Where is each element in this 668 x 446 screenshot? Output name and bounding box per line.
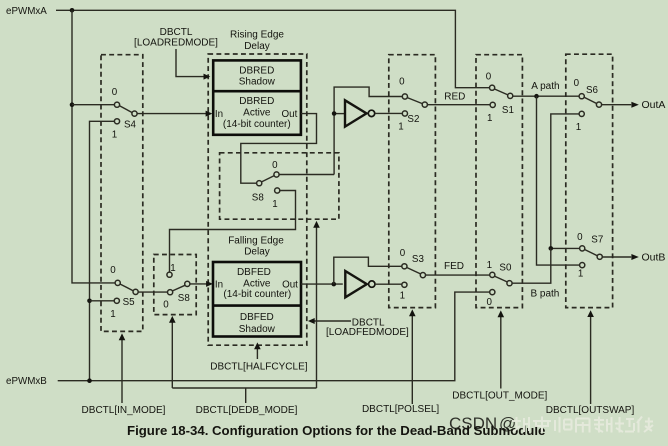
svg-text:RED: RED bbox=[444, 91, 465, 102]
svg-text:1: 1 bbox=[400, 290, 405, 301]
svg-text:DBCTL: DBCTL bbox=[160, 27, 193, 38]
svg-text:Active: Active bbox=[243, 108, 271, 119]
svg-text:S3: S3 bbox=[412, 254, 425, 265]
wire S4-1 / S5-1 vertical x89.5 bbox=[90, 121, 115, 380]
svg-text:S8: S8 bbox=[178, 293, 191, 304]
arrow LOADREDMODE to shadow box bbox=[176, 49, 204, 77]
dashed box POLSEL (S2/S3) bbox=[389, 55, 436, 308]
wire ePWMxA main: right, down, to S1 contact 0 bbox=[56, 10, 489, 87]
svg-text:0: 0 bbox=[400, 248, 406, 259]
wire FED junction over the top to S3 contact 0 bbox=[334, 257, 402, 284]
svg-text:0: 0 bbox=[574, 78, 580, 89]
svg-text:DBCTL[IN_MODE]: DBCTL[IN_MODE] bbox=[82, 405, 166, 416]
svg-text:Delay: Delay bbox=[244, 41, 270, 52]
svg-text:1: 1 bbox=[487, 260, 492, 271]
arrow HALFCYCLE to falling box bbox=[256, 349, 258, 359]
svg-text:CSDN: CSDN bbox=[449, 414, 497, 433]
watermark CSDN bbox=[449, 414, 516, 433]
wire DBRED Out feed to S8 upper common bbox=[241, 114, 317, 184]
junction on RED inverter input bbox=[332, 111, 337, 116]
svg-text:OutB: OutB bbox=[642, 252, 666, 264]
svg-text:B path: B path bbox=[530, 289, 559, 300]
wire junction down to S0 common bbox=[512, 248, 551, 283]
dashed box rising/falling delay bbox=[208, 54, 307, 345]
junction x89.5 S5-1 branch bbox=[87, 299, 92, 304]
svg-text:S2: S2 bbox=[407, 114, 419, 125]
wire S8 lower common to DBFED In bbox=[190, 283, 206, 285]
svg-text:S8: S8 bbox=[252, 193, 265, 204]
switch S6 bbox=[574, 78, 602, 133]
svg-text:1: 1 bbox=[398, 121, 403, 132]
svg-text:S5: S5 bbox=[123, 297, 136, 308]
switch S1 bbox=[486, 71, 514, 124]
block DBFED (active + shadow) bbox=[213, 262, 301, 337]
wire U1 out to S2 contact 1 bbox=[375, 112, 402, 114]
svg-text:ePWMxA: ePWMxA bbox=[6, 6, 47, 17]
junction x72 to S4-0 bbox=[70, 102, 75, 107]
wire S7 common to OutB bbox=[603, 256, 632, 258]
svg-text:DBCTL[DEDB_MODE]: DBCTL[DEDB_MODE] bbox=[196, 405, 298, 416]
dashed box IN_MODE (S4/S5) bbox=[101, 55, 143, 332]
wire A path crossover down to S7 contact 1 bbox=[537, 96, 580, 265]
svg-text:Active: Active bbox=[243, 278, 271, 289]
wire to S5 contact 1 bbox=[90, 300, 115, 302]
svg-text:1: 1 bbox=[170, 263, 175, 274]
svg-text:Falling Edge: Falling Edge bbox=[228, 236, 284, 247]
dashed box S8 upper bbox=[220, 153, 339, 219]
switch S0 bbox=[486, 260, 512, 308]
arrow OUT_MODE to S1/S0 box bbox=[500, 317, 502, 389]
wire to S4 contact 0 bbox=[72, 104, 114, 106]
svg-text:1: 1 bbox=[487, 113, 492, 124]
svg-text:ePWMxB: ePWMxB bbox=[6, 376, 47, 387]
svg-text:DBCTL[OUTSWAP]: DBCTL[OUTSWAP] bbox=[546, 405, 635, 416]
switch S8 upper bbox=[252, 160, 280, 210]
wire S6 common to OutA bbox=[602, 104, 631, 106]
switch S5 bbox=[110, 265, 138, 320]
svg-text:S0: S0 bbox=[499, 262, 512, 273]
junction on FED inverter input bbox=[332, 282, 337, 287]
svg-text:(14-bit counter): (14-bit counter) bbox=[223, 289, 291, 300]
svg-text:DBRED: DBRED bbox=[239, 66, 274, 77]
dashed box S8 lower bbox=[154, 255, 196, 315]
wire junction to inverter U1 input bbox=[334, 113, 345, 115]
dashed box OUTSWAP (S6/S7) bbox=[566, 54, 613, 307]
switch S2 bbox=[398, 77, 427, 133]
svg-text:0: 0 bbox=[272, 160, 278, 171]
svg-text:FED: FED bbox=[444, 261, 464, 272]
dashed box OUT_MODE (S1/S0) bbox=[476, 55, 522, 308]
wire DBFED Out to inverter U2 and junction bbox=[301, 283, 343, 285]
svg-text:DBCTL[HALFCYCLE]: DBCTL[HALFCYCLE] bbox=[210, 362, 307, 373]
svg-text:Out: Out bbox=[282, 109, 298, 120]
svg-text:DBCTL[OUT_MODE]: DBCTL[OUT_MODE] bbox=[452, 390, 547, 401]
wire ePWMxB main: right, up, to S0 contact 0 bbox=[58, 292, 490, 381]
svg-text:S6: S6 bbox=[586, 85, 599, 96]
svg-text:1: 1 bbox=[578, 269, 583, 280]
svg-text:DBCTL[POLSEL]: DBCTL[POLSEL] bbox=[362, 404, 439, 415]
block DBRED (shadow + active) bbox=[213, 60, 301, 134]
arrowhead into DBFED In bbox=[206, 281, 213, 287]
wire A path: S1 common to S6 contact 0 bbox=[513, 95, 579, 97]
wire S8 upper contact 1 down to S8 lower contact 1 bbox=[170, 191, 296, 272]
wire DEDB_MODE stub and rail bbox=[172, 388, 316, 403]
junction x89.5 ePWMxB bbox=[87, 378, 92, 383]
arrow POLSEL to S2/S3 box bbox=[411, 316, 413, 404]
wire S6 contact 1 crossover down to S7 contact 0 bbox=[551, 114, 580, 249]
switch S8 lower bbox=[163, 263, 190, 310]
wire S8 upper contact 0 to inverter junction bbox=[279, 87, 402, 174]
switch S4 bbox=[112, 87, 137, 140]
wire U2 out to S3 contact 1 bbox=[375, 283, 402, 285]
wire vertical x72 down to S5 row bbox=[72, 10, 115, 283]
svg-text:Delay: Delay bbox=[244, 247, 270, 258]
switch S3 bbox=[400, 248, 426, 301]
svg-text:S1: S1 bbox=[502, 105, 514, 116]
wire S5 common to S8 lower contact 0 bbox=[138, 291, 167, 293]
svg-text:(14-bit counter): (14-bit counter) bbox=[223, 119, 291, 130]
junction ePWMxA at x72 bbox=[70, 8, 75, 13]
svg-text:1: 1 bbox=[576, 122, 581, 133]
svg-text:Out: Out bbox=[282, 279, 298, 290]
svg-text:OutA: OutA bbox=[642, 99, 666, 111]
svg-text:0: 0 bbox=[163, 299, 169, 310]
svg-text:0: 0 bbox=[110, 265, 116, 276]
svg-text:In: In bbox=[215, 279, 223, 290]
arrowhead OutB bbox=[631, 254, 638, 260]
svg-text:1: 1 bbox=[112, 130, 117, 141]
svg-text:DBRED: DBRED bbox=[239, 96, 274, 107]
svg-text:[LOADREDMODE]: [LOADREDMODE] bbox=[134, 37, 218, 48]
svg-text:1: 1 bbox=[110, 309, 115, 320]
wire FED net: S3 common to S0 contact 1 bbox=[426, 274, 490, 276]
watermark chinese glyph blocks bbox=[512, 417, 653, 433]
svg-text:In: In bbox=[215, 109, 223, 120]
arrow IN_MODE to S4/S5 box bbox=[121, 340, 123, 403]
junction A path bbox=[534, 94, 539, 99]
svg-text:Shadow: Shadow bbox=[239, 324, 276, 335]
svg-text:1: 1 bbox=[272, 199, 277, 210]
arrow LOADFEDMODE to falling box bbox=[315, 320, 352, 322]
wire S4 common to DBRED In bbox=[137, 113, 206, 115]
svg-text:0: 0 bbox=[486, 297, 492, 308]
svg-text:S7: S7 bbox=[591, 234, 603, 245]
svg-text:DBFED: DBFED bbox=[240, 312, 274, 323]
svg-text:0: 0 bbox=[112, 87, 118, 98]
svg-text:S4: S4 bbox=[124, 120, 137, 131]
arrow DEDB_MODE to S8 lower box bbox=[171, 323, 173, 389]
arrow DEDB_MODE to S8 upper box bbox=[316, 228, 318, 389]
wire RED net: S2 common to S1 contact 1 bbox=[428, 104, 490, 106]
inverter U2 (FED polarity) bbox=[345, 271, 375, 297]
arrow OUTSWAP to S6/S7 box bbox=[590, 317, 592, 404]
svg-text:[LOADFEDMODE]: [LOADFEDMODE] bbox=[326, 327, 409, 338]
svg-text:A path: A path bbox=[531, 81, 559, 92]
svg-text:DBFED: DBFED bbox=[237, 267, 271, 278]
svg-text:Rising Edge: Rising Edge bbox=[230, 29, 284, 40]
svg-text:Shadow: Shadow bbox=[239, 76, 276, 87]
inverter U1 (RED polarity) bbox=[345, 100, 375, 126]
svg-text:0: 0 bbox=[399, 77, 405, 88]
junction B crossover bbox=[549, 246, 554, 251]
arrowhead into DBRED In bbox=[206, 111, 213, 117]
arrowhead OutA bbox=[631, 102, 638, 108]
svg-text:0: 0 bbox=[486, 71, 492, 82]
svg-text:0: 0 bbox=[577, 232, 583, 243]
switch S7 bbox=[577, 232, 603, 280]
